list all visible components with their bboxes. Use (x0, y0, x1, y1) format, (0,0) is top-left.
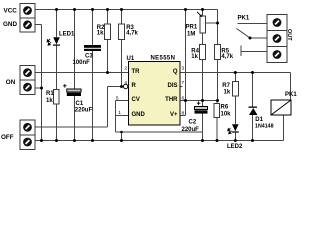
svg-text:7: 7 (182, 80, 185, 86)
svg-text:TR: TR (132, 69, 141, 75)
svg-text:GND: GND (3, 21, 17, 28)
svg-text:1k: 1k (46, 98, 53, 104)
svg-text:4,7k: 4,7k (221, 54, 233, 60)
svg-text:OUT: OUT (286, 29, 292, 41)
svg-text:C1: C1 (76, 101, 84, 107)
svg-text:R6: R6 (221, 104, 229, 110)
svg-text:V+: V+ (170, 112, 178, 118)
svg-text:OFF: OFF (1, 134, 14, 141)
svg-text:1: 1 (118, 110, 121, 116)
svg-text:1M: 1M (187, 32, 195, 38)
svg-text:VCC: VCC (4, 7, 18, 14)
svg-text:8: 8 (182, 111, 185, 117)
svg-text:220uF: 220uF (75, 108, 93, 114)
svg-text:3: 3 (182, 66, 185, 72)
svg-text:PR1: PR1 (186, 24, 198, 30)
svg-text:C3: C3 (85, 54, 93, 60)
svg-text:PK1: PK1 (285, 92, 297, 98)
svg-text:1k: 1k (191, 54, 198, 60)
svg-text:CV: CV (132, 97, 140, 103)
svg-text:PK1: PK1 (238, 15, 250, 21)
svg-text:ON: ON (6, 79, 16, 86)
svg-text:C2: C2 (189, 119, 197, 125)
svg-text:THR: THR (165, 97, 178, 103)
svg-text:D1: D1 (255, 117, 263, 123)
svg-text:1k: 1k (97, 31, 104, 37)
svg-text:1N4148: 1N4148 (255, 123, 274, 129)
svg-text:R1: R1 (46, 91, 54, 97)
svg-text:4,7k: 4,7k (126, 31, 138, 37)
svg-text:2: 2 (124, 66, 127, 72)
svg-text:GND: GND (132, 112, 146, 118)
svg-text:R: R (132, 83, 137, 89)
svg-text:R7: R7 (222, 83, 230, 89)
svg-text:DIS: DIS (167, 83, 177, 89)
svg-text:10k: 10k (221, 112, 232, 118)
svg-text:LED2: LED2 (227, 144, 243, 150)
svg-text:6: 6 (182, 96, 185, 102)
svg-text:4: 4 (124, 80, 127, 86)
svg-text:NE555N: NE555N (151, 56, 176, 62)
svg-text:5: 5 (116, 96, 119, 102)
svg-text:Q: Q (173, 69, 178, 75)
svg-text:1k: 1k (224, 89, 231, 95)
svg-text:LED1: LED1 (59, 32, 75, 38)
svg-text:220uF: 220uF (182, 127, 200, 133)
svg-text:U1: U1 (127, 56, 135, 62)
svg-text:100nF: 100nF (73, 60, 91, 66)
